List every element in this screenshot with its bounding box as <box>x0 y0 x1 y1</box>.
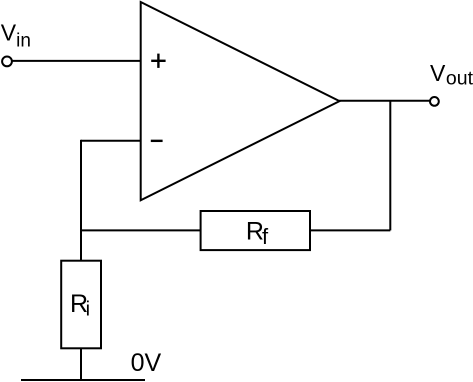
svg-text:f: f <box>262 224 269 249</box>
svg-text:out: out <box>446 68 473 90</box>
svg-text:in: in <box>16 31 31 52</box>
svg-text:V: V <box>1 20 17 46</box>
svg-text:i: i <box>86 299 90 321</box>
svg-text:0V: 0V <box>131 349 162 377</box>
svg-text:V: V <box>430 60 446 86</box>
